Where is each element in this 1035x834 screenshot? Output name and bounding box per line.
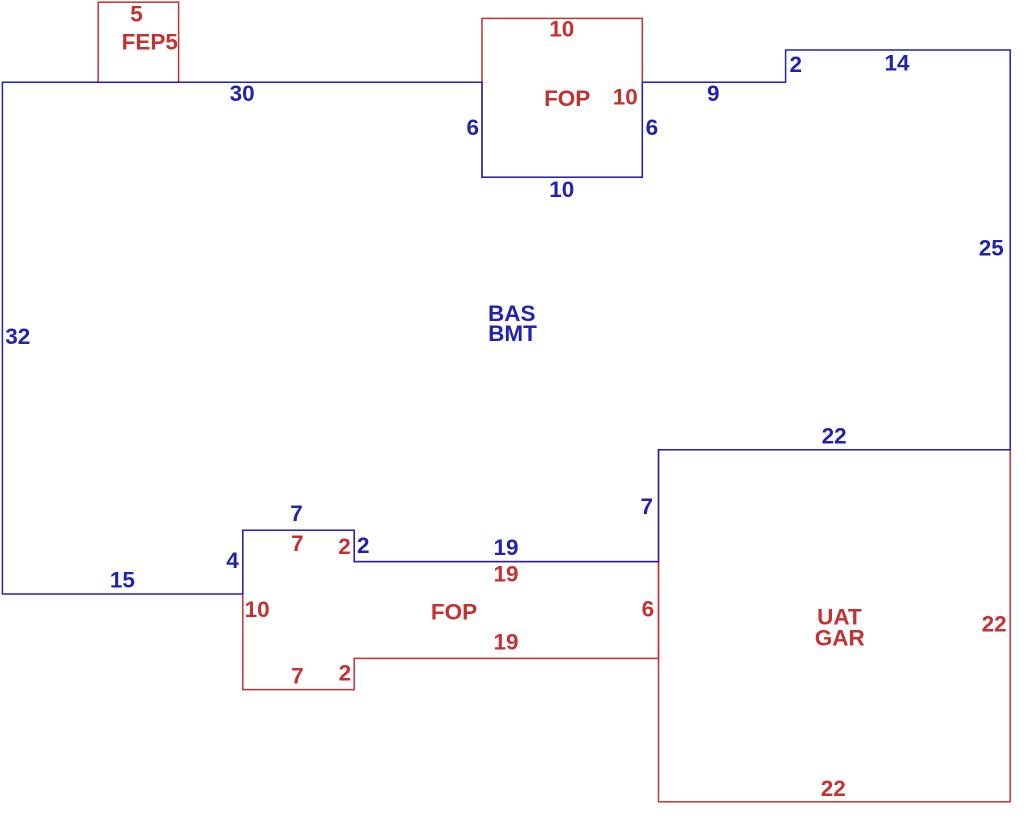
svg-text:6: 6 (646, 115, 659, 140)
svg-text:7: 7 (640, 494, 653, 519)
svg-text:2: 2 (338, 534, 351, 559)
svg-text:22: 22 (821, 776, 846, 801)
svg-text:FOP: FOP (544, 86, 590, 111)
svg-text:25: 25 (979, 236, 1004, 261)
svg-text:9: 9 (707, 81, 720, 106)
svg-text:19: 19 (493, 561, 518, 586)
svg-text:10: 10 (549, 17, 574, 42)
svg-text:4: 4 (226, 548, 239, 573)
svg-text:2: 2 (339, 661, 352, 686)
svg-text:22: 22 (982, 611, 1007, 636)
svg-text:GAR: GAR (815, 626, 865, 651)
svg-text:BMT: BMT (488, 321, 537, 346)
svg-text:7: 7 (291, 531, 304, 556)
svg-text:2: 2 (789, 52, 802, 77)
svg-text:19: 19 (493, 630, 518, 655)
svg-text:30: 30 (230, 81, 255, 106)
svg-text:6: 6 (466, 115, 479, 140)
svg-text:FOP: FOP (431, 599, 477, 624)
svg-text:32: 32 (5, 324, 30, 349)
svg-text:7: 7 (291, 664, 304, 689)
svg-text:2: 2 (357, 533, 370, 558)
svg-text:FEP5: FEP5 (122, 29, 178, 54)
svg-text:14: 14 (884, 50, 910, 75)
svg-text:5: 5 (130, 1, 143, 26)
svg-text:19: 19 (493, 535, 518, 560)
svg-text:10: 10 (245, 597, 270, 622)
svg-text:10: 10 (549, 177, 574, 202)
svg-text:6: 6 (642, 596, 655, 621)
svg-text:15: 15 (110, 567, 135, 592)
svg-text:10: 10 (613, 85, 638, 110)
svg-text:7: 7 (290, 501, 303, 526)
svg-text:22: 22 (822, 423, 847, 448)
